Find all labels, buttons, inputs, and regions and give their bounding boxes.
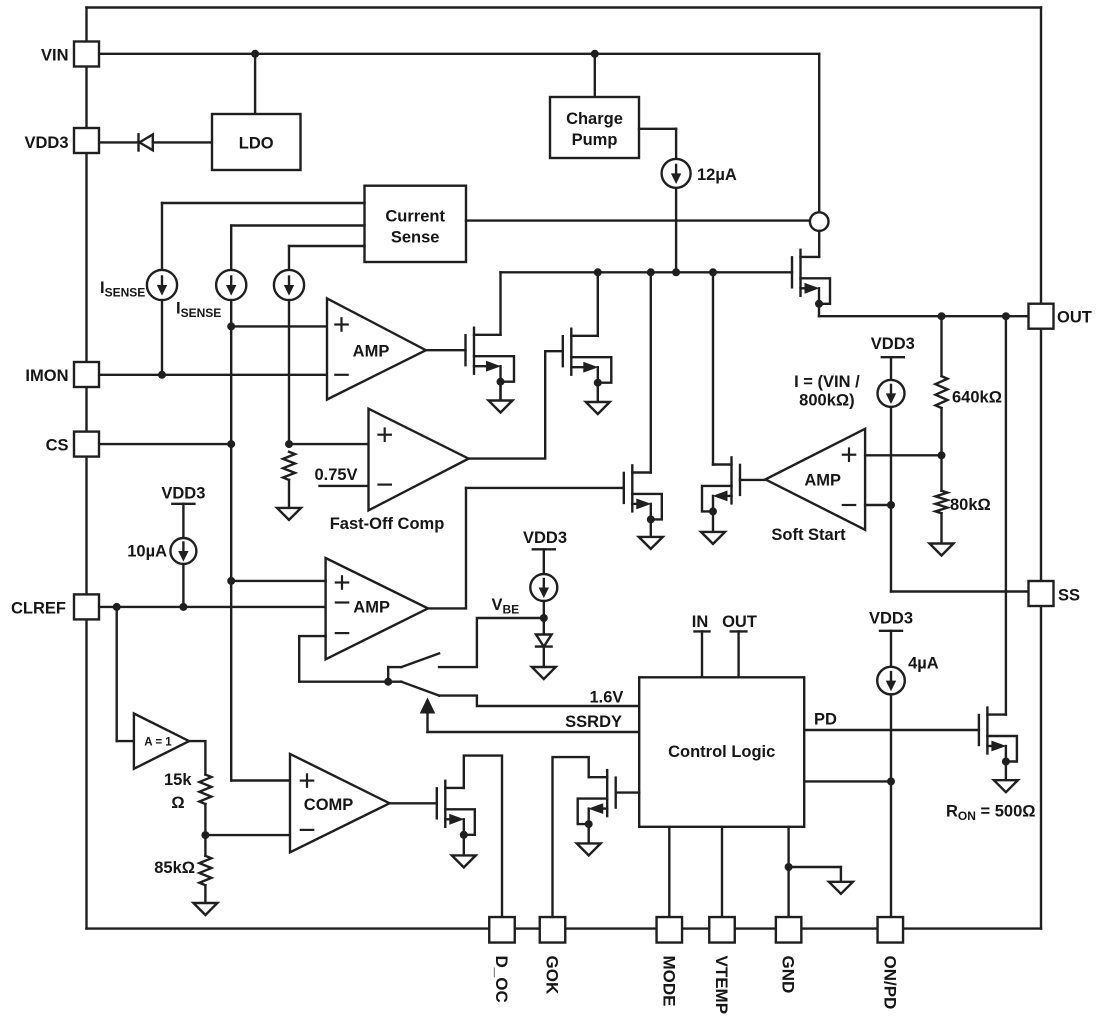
svg-text:1.6V: 1.6V bbox=[589, 689, 623, 707]
svg-text:OUT: OUT bbox=[1057, 309, 1092, 327]
svg-text:VDD3: VDD3 bbox=[871, 335, 915, 353]
svg-text:A = 1: A = 1 bbox=[144, 737, 172, 749]
svg-text:Sense: Sense bbox=[391, 229, 440, 247]
svg-text:VDD3: VDD3 bbox=[161, 485, 205, 503]
svg-text:Current: Current bbox=[385, 208, 445, 226]
svg-text:800kΩ): 800kΩ) bbox=[799, 392, 854, 410]
svg-text:I = (VIN /: I = (VIN / bbox=[794, 373, 860, 391]
svg-text:4µA: 4µA bbox=[908, 655, 939, 673]
svg-text:AMP: AMP bbox=[804, 472, 841, 490]
svg-text:12µA: 12µA bbox=[697, 166, 737, 184]
svg-text:COMP: COMP bbox=[304, 796, 354, 814]
svg-text:VDD3: VDD3 bbox=[24, 134, 68, 152]
svg-text:IMON: IMON bbox=[25, 367, 68, 385]
svg-text:640kΩ: 640kΩ bbox=[952, 388, 1002, 406]
svg-text:MODE: MODE bbox=[659, 956, 678, 1007]
svg-text:Ω: Ω bbox=[171, 794, 184, 812]
svg-text:PD: PD bbox=[814, 711, 837, 729]
svg-text:ON/PD: ON/PD bbox=[880, 956, 899, 1010]
svg-text:GND: GND bbox=[779, 956, 798, 994]
svg-text:10µA: 10µA bbox=[127, 543, 167, 561]
svg-text:CS: CS bbox=[46, 437, 69, 455]
svg-text:AMP: AMP bbox=[353, 343, 390, 361]
svg-text:80kΩ: 80kΩ bbox=[950, 496, 991, 514]
svg-text:Soft Start: Soft Start bbox=[771, 526, 846, 544]
svg-text:VIN: VIN bbox=[41, 47, 69, 65]
svg-text:15k: 15k bbox=[164, 771, 192, 789]
svg-text:SS: SS bbox=[1058, 587, 1080, 605]
svg-text:LDO: LDO bbox=[239, 135, 274, 153]
svg-text:Control Logic: Control Logic bbox=[668, 743, 775, 761]
svg-text:SSRDY: SSRDY bbox=[565, 713, 622, 731]
svg-text:Fast-Off Comp: Fast-Off Comp bbox=[330, 515, 445, 533]
svg-text:CLREF: CLREF bbox=[11, 600, 66, 618]
svg-text:GOK: GOK bbox=[543, 956, 562, 995]
svg-text:VDD3: VDD3 bbox=[869, 610, 913, 628]
svg-text:VTEMP: VTEMP bbox=[712, 956, 731, 1015]
svg-text:D_OC: D_OC bbox=[492, 956, 511, 1003]
svg-text:AMP: AMP bbox=[353, 599, 390, 617]
svg-text:VDD3: VDD3 bbox=[523, 529, 567, 547]
svg-text:0.75V: 0.75V bbox=[314, 466, 357, 484]
svg-text:IN: IN bbox=[692, 613, 709, 631]
svg-text:Charge: Charge bbox=[566, 110, 623, 128]
svg-text:85kΩ: 85kΩ bbox=[154, 859, 195, 877]
svg-text:Pump: Pump bbox=[572, 131, 618, 149]
svg-text:OUT: OUT bbox=[722, 613, 757, 631]
